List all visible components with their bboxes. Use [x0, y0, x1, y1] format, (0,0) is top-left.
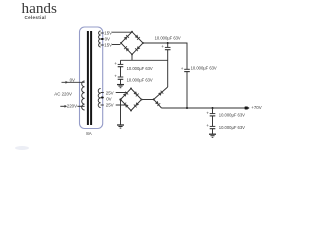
- capacitor C5: [210, 113, 216, 115]
- ground GND2: [117, 124, 124, 126]
- wire negative bus: [121, 59, 168, 61]
- svg-text:0V: 0V: [105, 37, 110, 42]
- transformer T1 box: [80, 27, 103, 129]
- diode D5 symbol: [158, 91, 163, 96]
- diode D1d SE: [135, 46, 140, 51]
- wire bridge2 right output: [142, 99, 154, 101]
- svg-text:10.000µF 63V: 10.000µF 63V: [219, 125, 245, 130]
- node dot bus x212: [212, 107, 214, 109]
- bridge2 vertex dots: [130, 88, 132, 90]
- terminal arrow 0V: [66, 81, 69, 84]
- tap wire 15V upper: [101, 32, 104, 34]
- wire 15V to bridge1 left: [112, 44, 120, 46]
- wire bridge2 left to ground: [120, 100, 122, 125]
- svg-text:+: +: [206, 123, 209, 128]
- capacitor C1 chain vertical: [120, 60, 122, 64]
- primary winding: [82, 81, 85, 110]
- faint watermark smudge: [15, 146, 29, 150]
- diode D2c SW: [123, 103, 128, 108]
- bridge1 vertex dots: [131, 31, 133, 33]
- svg-text:25V: 25V: [106, 90, 114, 95]
- node dot bus x187: [186, 107, 188, 109]
- bridge1 diodes: [120, 31, 144, 56]
- wire primary 0V terminal: [62, 81, 85, 83]
- tap wire 0V lower: [101, 97, 104, 99]
- svg-text:+: +: [114, 74, 117, 79]
- diode pair node: [153, 98, 155, 100]
- svg-text:+: +: [161, 44, 164, 49]
- svg-text:220V: 220V: [67, 104, 77, 109]
- svg-text:8A: 8A: [86, 131, 91, 136]
- tap wire 15V lower: [101, 44, 104, 46]
- wire rail x187: [186, 43, 188, 70]
- diode D2b NE: [133, 91, 138, 96]
- node dot 0V upper: [101, 38, 103, 40]
- svg-text:+: +: [181, 66, 184, 71]
- wire primary 220V terminal: [60, 105, 65, 107]
- ground GND3: [209, 133, 216, 135]
- wire bridge1 bottom drop: [131, 54, 133, 60]
- svg-text:Celestial: Celestial: [25, 15, 47, 20]
- secondary winding lower: [98, 89, 100, 108]
- capacitor C5 chain below bus: [212, 108, 214, 113]
- wire 25V to bridge2 upper edge: [116, 92, 128, 94]
- tap wire 0V upper: [101, 38, 104, 40]
- svg-text:+: +: [114, 61, 117, 66]
- svg-text:15V: 15V: [104, 43, 112, 48]
- svg-text:15V: 15V: [104, 31, 112, 36]
- svg-text:10.000µF 63V: 10.000µF 63V: [127, 78, 153, 83]
- terminal arrow 220V: [65, 105, 68, 108]
- capacitor C2: [118, 76, 124, 78]
- svg-text:0V: 0V: [70, 78, 75, 83]
- wire bridge1 output: [143, 42, 187, 44]
- capacitor C6: [210, 125, 216, 127]
- diode D5 diagonal up: [154, 87, 168, 99]
- transformer core: [87, 31, 92, 125]
- svg-text:+70V: +70V: [251, 105, 261, 110]
- bridge rectifier D1 diamond: [121, 32, 143, 55]
- svg-text:10.000µF 63V: 10.000µF 63V: [155, 36, 181, 41]
- diode D6 diagonal down: [154, 99, 162, 108]
- secondary winding upper: [99, 31, 101, 47]
- svg-text:10.000µF 63V: 10.000µF 63V: [219, 113, 245, 118]
- node dot bridge2 left: [119, 98, 121, 100]
- tap wire 25V lower: [101, 104, 104, 106]
- wire +70V bus: [162, 107, 247, 109]
- svg-text:AC 220V: AC 220V: [54, 91, 72, 96]
- svg-text:+: +: [206, 110, 209, 115]
- svg-text:10.000µF 63V: 10.000µF 63V: [191, 66, 217, 71]
- diode D6 symbol: [155, 101, 160, 106]
- wire 25V to bridge2 lower edge: [116, 104, 126, 106]
- node dot 0V lower: [101, 97, 103, 99]
- diode D2d SE: [134, 102, 139, 107]
- capacitor C4: [184, 68, 190, 70]
- diode D1c SW: [124, 46, 129, 51]
- diode D1a NW: [124, 35, 129, 40]
- tap wire 25V upper: [101, 92, 104, 94]
- terminal arrow +70V: [245, 107, 248, 110]
- plus signs of polarized caps: [114, 44, 209, 128]
- ground GND1: [117, 84, 124, 86]
- svg-text:25V: 25V: [106, 103, 114, 108]
- diode D1b NE: [135, 35, 140, 40]
- capacitor C3 on rail x163: [167, 43, 169, 47]
- capacitor C1: [118, 63, 124, 65]
- bridge rectifier D2 diamond: [121, 89, 142, 111]
- diode D2a NW: [123, 92, 128, 97]
- svg-text:10.000µF 63V: 10.000µF 63V: [127, 66, 153, 71]
- bridge2 diodes: [123, 88, 143, 112]
- svg-text:0V: 0V: [106, 96, 111, 101]
- wire 15V to bridge1 top: [112, 31, 132, 33]
- node dot top wire: [167, 42, 169, 44]
